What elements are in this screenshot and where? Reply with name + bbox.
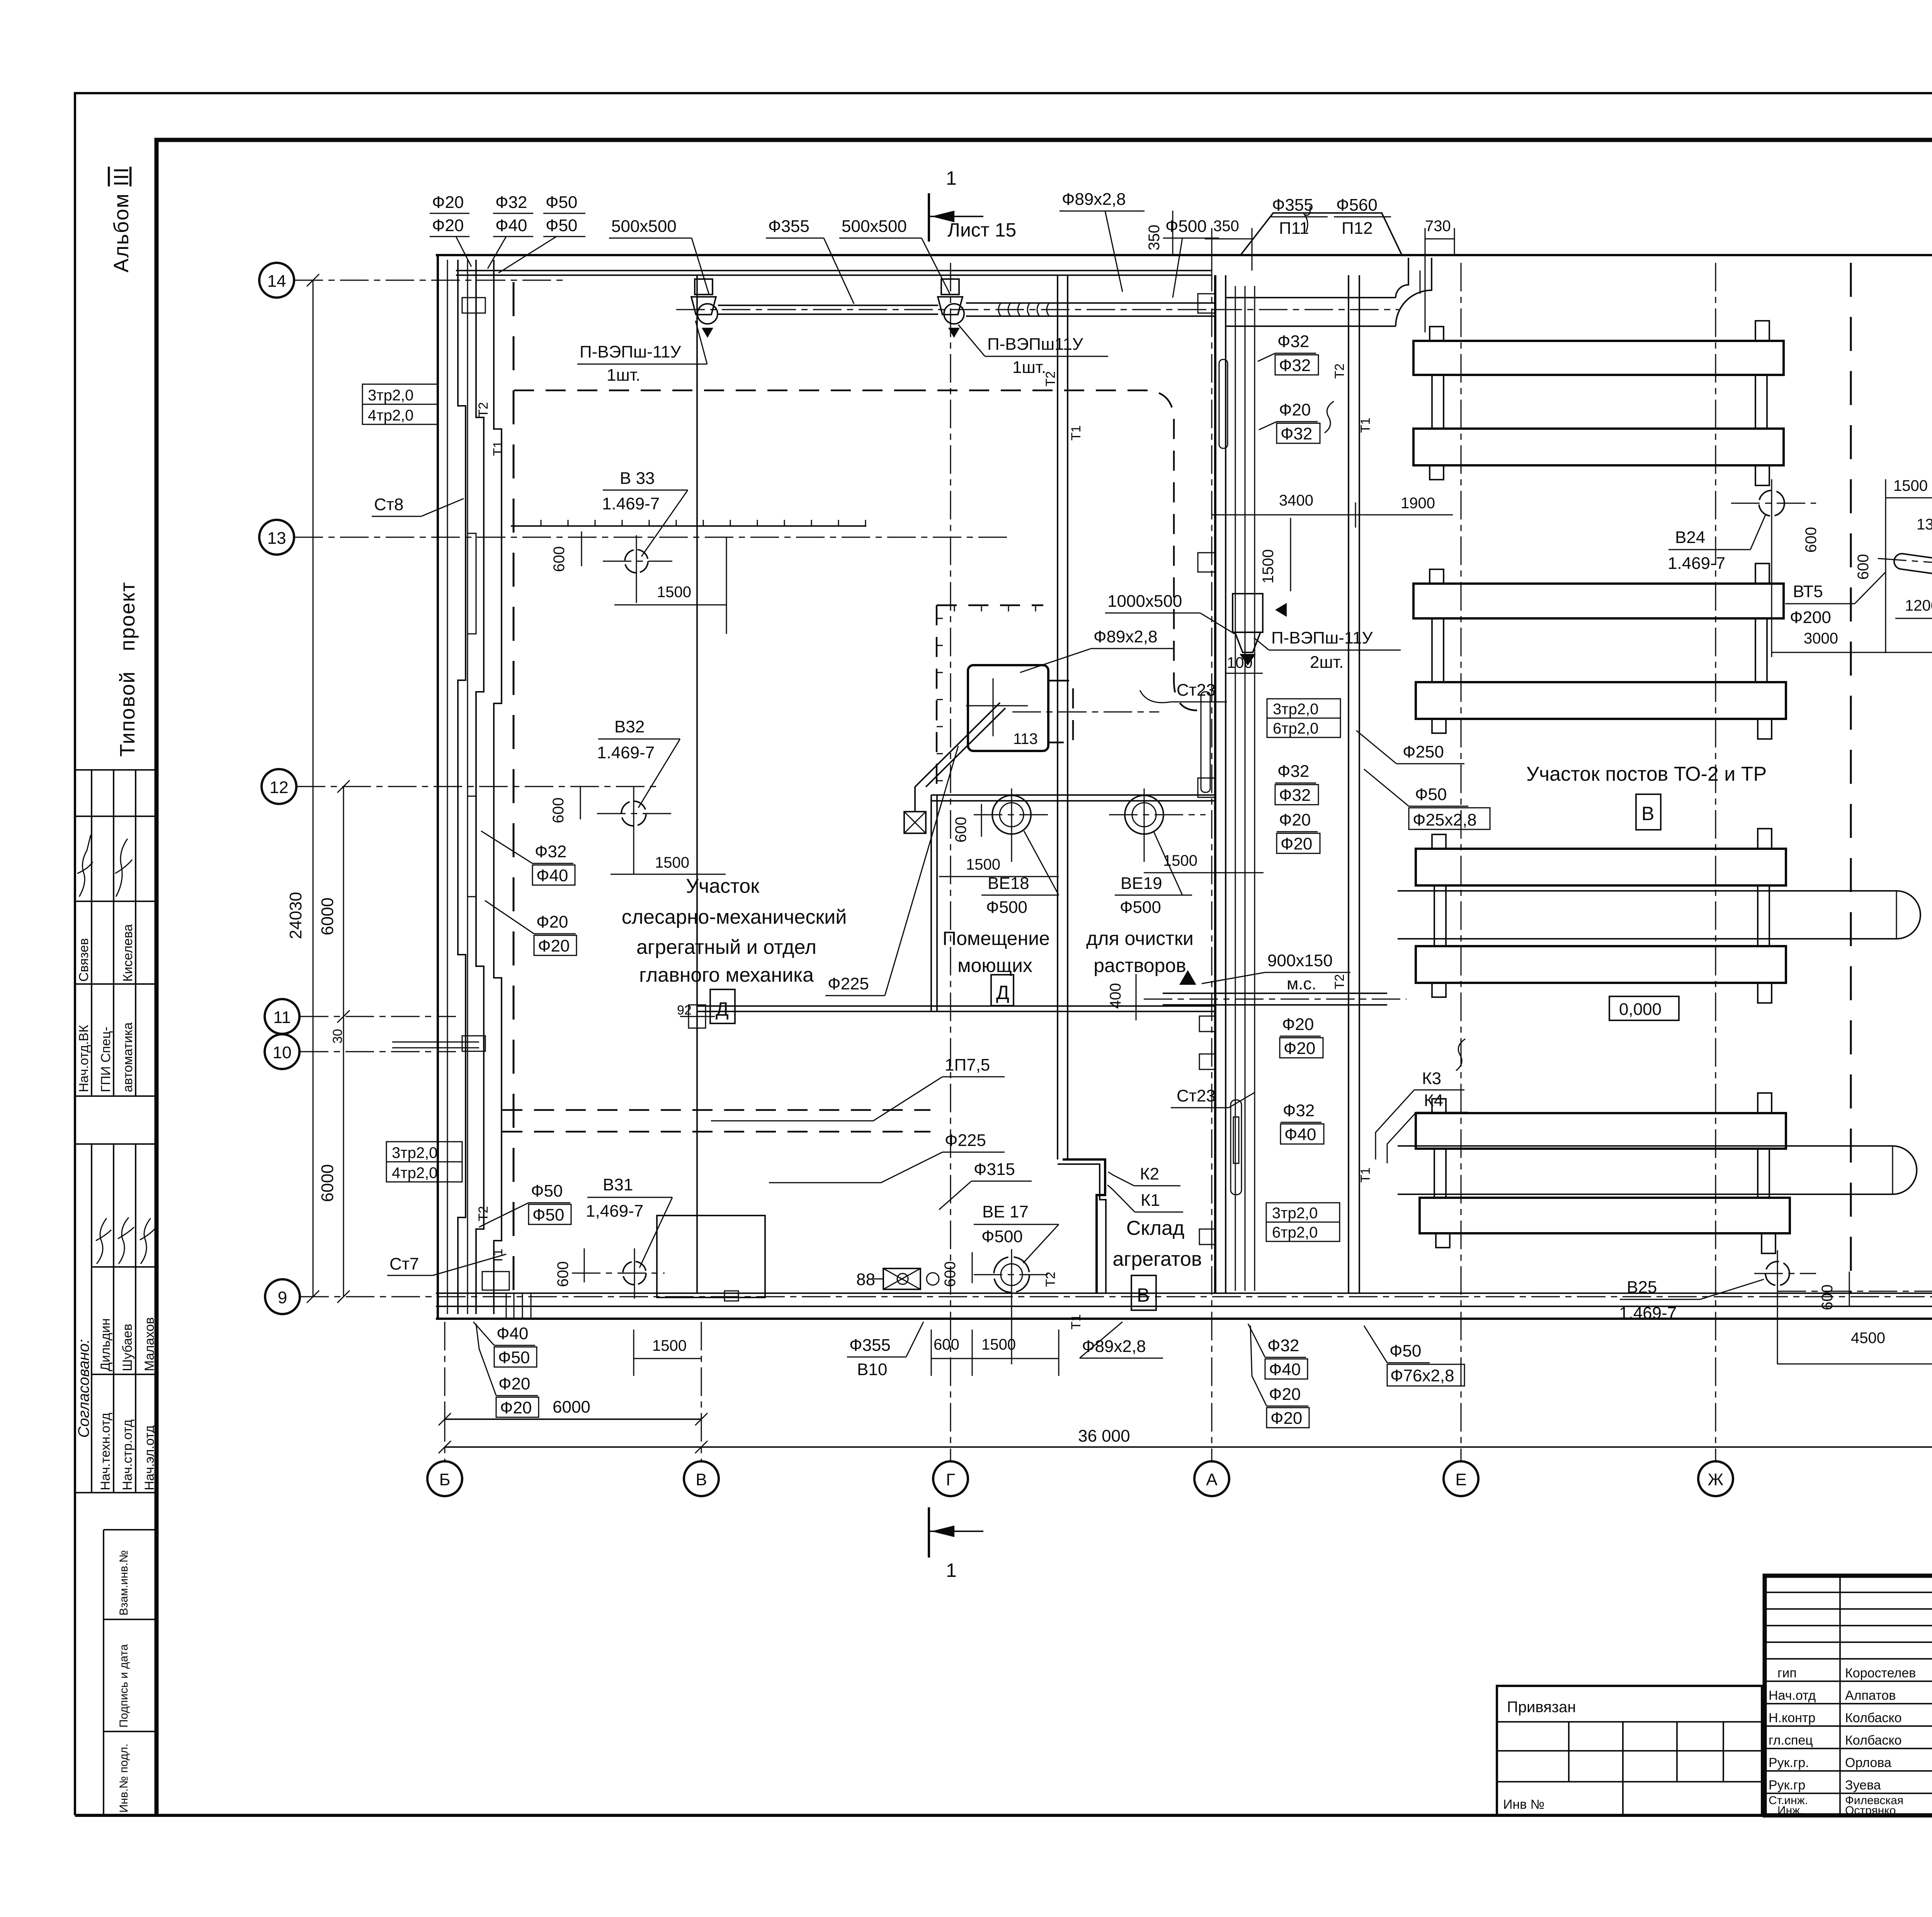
svg-text:ГПИ Спец-: ГПИ Спец-	[99, 1027, 113, 1092]
svg-text:1500: 1500	[981, 1336, 1016, 1353]
svg-text:Рук.гр.: Рук.гр.	[1769, 1755, 1809, 1770]
dash-dot line from 113 to St23	[1012, 712, 1159, 713]
svg-text:П-ВЭПш-11У: П-ВЭПш-11У	[1271, 628, 1373, 647]
svg-text:Лист 15: Лист 15	[947, 219, 1016, 241]
svg-text:Ф20: Ф20	[1279, 400, 1311, 419]
label F355	[766, 217, 854, 304]
svg-text:Нач.техн.отд: Нач.техн.отд	[98, 1413, 113, 1490]
bay bench group 1 upper bench	[1413, 321, 1784, 375]
dashed connector bracket at 113	[1049, 681, 1073, 742]
strainer with cross 88	[856, 1268, 939, 1289]
svg-text:Ф200: Ф200	[1790, 608, 1831, 627]
svg-text:Склад: Склад	[1126, 1217, 1185, 1239]
svg-text:Ф20: Ф20	[536, 913, 568, 931]
svg-text:3тр2,0: 3тр2,0	[1272, 1205, 1318, 1222]
bottom boxed F20 F20 right	[1250, 1326, 1309, 1428]
axis A circle	[1194, 1461, 1229, 1496]
svg-text:6000: 6000	[318, 1164, 337, 1202]
drain B32 label	[597, 717, 680, 808]
bay group 3 connectors	[1434, 885, 1769, 946]
fan unit 2 on duct	[938, 279, 964, 338]
riser capsule near axis A top	[1219, 359, 1228, 448]
svg-text:Ж: Ж	[1708, 1470, 1724, 1489]
T1 T2 riser tags left wall	[476, 402, 505, 1264]
svg-text:Участок: Участок	[686, 875, 759, 897]
bottom dim 600	[931, 1330, 972, 1376]
svg-text:10: 10	[273, 1043, 292, 1062]
dim 600 at B31	[554, 1248, 584, 1287]
svg-text:3тр2,0: 3тр2,0	[392, 1144, 437, 1161]
top pipe labels F32 F40	[488, 193, 533, 269]
svg-text:1500: 1500	[966, 856, 1000, 873]
dim 400 vertical	[1107, 974, 1136, 1020]
serrated fence around washing area	[937, 605, 1043, 792]
label 100	[1225, 654, 1263, 673]
svg-text:Ф500: Ф500	[1165, 217, 1207, 236]
room label dlya ochistki rastvorov	[1086, 928, 1194, 976]
svg-text:К4: К4	[1424, 1091, 1443, 1110]
axis 11 line	[300, 1016, 456, 1017]
svg-text:Колбаско: Колбаско	[1845, 1733, 1902, 1748]
svg-text:Нач.отд: Нач.отд	[1769, 1688, 1816, 1703]
svg-text:Ф50: Ф50	[532, 1205, 564, 1224]
svg-text:Связев: Связев	[77, 938, 91, 982]
boxed 3tr 4tr labels lower left	[386, 1142, 462, 1182]
bottom dim 1500 second	[972, 1330, 1059, 1376]
svg-text:П-ВЭПш11У: П-ВЭПш11У	[987, 335, 1083, 354]
washing room left wall	[931, 795, 937, 1011]
margin bottom boxes frame	[104, 1530, 156, 1815]
bay group 3 lower bench	[1416, 946, 1786, 1003]
axis E column line	[1461, 263, 1462, 1461]
svg-text:Т2: Т2	[476, 1206, 491, 1221]
axis 11 circle	[265, 999, 299, 1034]
svg-text:Нач.эл.отд: Нач.эл.отд	[142, 1425, 157, 1490]
room label sklad agregatov	[1112, 1217, 1202, 1270]
svg-text:Типовой проект: Типовой проект	[116, 581, 139, 757]
svg-text:Подпись и дата: Подпись и дата	[117, 1644, 130, 1728]
tap B24	[1731, 479, 1816, 657]
svg-text:Киселева: Киселева	[121, 924, 135, 982]
svg-text:Ф20: Ф20	[1279, 810, 1311, 829]
svg-text:Ст7: Ст7	[389, 1255, 419, 1273]
svg-text:Привязан: Привязан	[1507, 1699, 1576, 1716]
axis A column line	[1211, 263, 1213, 1461]
axis A interior wall bundle	[1198, 275, 1255, 1293]
dim 6000 bottom left	[439, 1398, 707, 1434]
dims around B24	[1803, 477, 1932, 653]
svg-text:для очистки: для очистки	[1086, 928, 1194, 949]
svg-text:6000: 6000	[318, 897, 337, 935]
svg-text:Т2: Т2	[1043, 1272, 1058, 1287]
bay group 1 connectors	[1432, 375, 1767, 429]
svg-text:м.с.: м.с.	[1287, 974, 1316, 993]
svg-text:13: 13	[267, 529, 286, 548]
svg-text:Ф50: Ф50	[531, 1182, 563, 1200]
signature rows texts	[1769, 1666, 1916, 1817]
svg-text:А: А	[1206, 1470, 1218, 1489]
svg-text:Ф20: Ф20	[1282, 1015, 1314, 1034]
axis G column line	[950, 263, 951, 1461]
svg-text:В24: В24	[1675, 528, 1705, 547]
boxed 3tr2.0 6tr2.0 lower	[1266, 1203, 1340, 1241]
svg-text:Ф560: Ф560	[1336, 196, 1378, 215]
room label pomeshchenie moyushchikh	[942, 928, 1050, 976]
VE18 label	[981, 831, 1059, 917]
boxed F20 F20 left wall	[485, 901, 577, 955]
svg-text:1500: 1500	[1893, 477, 1928, 494]
drain B31 label	[586, 1175, 672, 1268]
svg-text:Ф89х2,8: Ф89х2,8	[1062, 190, 1126, 209]
svg-text:Инв.№ подл.: Инв.№ подл.	[117, 1743, 130, 1813]
svg-text:1.469-7: 1.469-7	[602, 494, 660, 513]
axis 10 circle	[265, 1034, 299, 1069]
svg-text:1.469-7: 1.469-7	[1668, 554, 1725, 573]
label F315	[939, 1160, 1032, 1210]
axis B column line	[444, 1322, 446, 1461]
svg-text:Согласовано:: Согласовано:	[75, 1339, 92, 1438]
svg-text:Ф76х2,8: Ф76х2,8	[1390, 1366, 1454, 1385]
bay group 4 connectors	[1434, 1149, 1769, 1198]
svg-text:В: В	[1137, 1284, 1150, 1306]
svg-text:3400: 3400	[1279, 492, 1313, 509]
dim 600 at B33	[551, 531, 582, 572]
dim 350 horizontal	[1205, 218, 1252, 271]
svg-text:30: 30	[330, 1029, 345, 1044]
svg-text:Т1: Т1	[1069, 1314, 1083, 1330]
svg-text:Ф225: Ф225	[945, 1131, 986, 1150]
svg-text:агрегатов: агрегатов	[1112, 1248, 1202, 1270]
svg-text:В: В	[1641, 803, 1654, 824]
svg-text:Колбаско: Колбаско	[1845, 1711, 1902, 1725]
svg-text:Т1: Т1	[1358, 417, 1373, 433]
svg-text:К1: К1	[1141, 1191, 1160, 1210]
B25 label	[1619, 1278, 1764, 1323]
svg-text:В25: В25	[1627, 1278, 1657, 1297]
svg-text:600: 600	[1819, 1284, 1836, 1310]
roof shaft trapezoid P11 P12	[1240, 206, 1402, 256]
svg-text:Ф500: Ф500	[981, 1227, 1023, 1246]
svg-text:Ф20: Ф20	[500, 1398, 532, 1417]
vertical dim line 24030	[286, 274, 319, 1303]
bottom boxed F40 F50	[473, 1322, 537, 1367]
svg-text:6тр2,0: 6тр2,0	[1272, 1224, 1318, 1241]
dim 600 at B32	[550, 787, 580, 823]
svg-text:4тр2,0: 4тр2,0	[368, 407, 413, 424]
labels F20 F20 lower right column	[1280, 1015, 1323, 1058]
room tag D big room	[710, 989, 735, 1023]
svg-text:Т2: Т2	[1332, 974, 1347, 989]
svg-text:Б: Б	[439, 1470, 451, 1489]
bay bench group 3 upper bench	[1416, 829, 1786, 885]
axis 12 circle	[262, 769, 296, 804]
svg-text:Ф20: Ф20	[538, 936, 570, 955]
squiggle break near axis Zh top	[1325, 401, 1334, 433]
svg-text:Нач.стр.отд: Нач.стр.отд	[120, 1420, 135, 1490]
svg-text:Ф32: Ф32	[1279, 786, 1311, 805]
label 500x500 first	[609, 217, 709, 295]
svg-text:Ст8: Ст8	[374, 495, 403, 514]
axis E circle	[1444, 1461, 1478, 1496]
svg-text:Ф20: Ф20	[432, 193, 464, 212]
svg-text:132: 132	[1917, 516, 1932, 533]
svg-text:агрегатный и отдел: агрегатный и отдел	[636, 936, 816, 958]
svg-text:1шт.: 1шт.	[1012, 358, 1046, 377]
sklad agregatov stepped wall	[1063, 1159, 1105, 1293]
labels F20 F32 right column	[1259, 400, 1320, 443]
svg-text:1200: 1200	[1905, 597, 1932, 614]
svg-text:1500: 1500	[652, 1337, 687, 1354]
svg-text:Помещение: Помещение	[942, 928, 1050, 949]
svg-text:600: 600	[934, 1336, 959, 1353]
room label slesarno-mekhanichesky	[622, 875, 847, 986]
interior wall on axis V	[696, 275, 698, 1293]
svg-text:3000: 3000	[1804, 630, 1838, 647]
bottom dim 1500	[634, 1330, 701, 1376]
tap B25	[1754, 1250, 1932, 1364]
svg-text:600: 600	[1803, 527, 1820, 553]
svg-text:Ф500: Ф500	[1120, 898, 1161, 917]
duct drop 1000x500 with fan unit 3	[1233, 594, 1287, 666]
svg-text:1,469-7: 1,469-7	[586, 1202, 643, 1221]
axis Zh circle	[1698, 1461, 1733, 1496]
axis 9 circle	[265, 1279, 300, 1314]
svg-text:4тр2,0: 4тр2,0	[392, 1165, 437, 1182]
dim 1500 left	[939, 856, 1059, 877]
fan label 2sht	[1254, 628, 1401, 672]
section mark 1 bottom	[929, 1507, 983, 1581]
svg-text:1П7,5: 1П7,5	[945, 1056, 990, 1074]
svg-text:1шт.: 1шт.	[607, 366, 640, 385]
axis B circle	[427, 1461, 462, 1496]
svg-text:Е: Е	[1455, 1470, 1466, 1489]
svg-text:600: 600	[554, 1261, 571, 1287]
bay group 4 lower bench	[1420, 1198, 1790, 1253]
svg-text:600: 600	[942, 1261, 959, 1287]
margin table 1 frame	[75, 770, 156, 1096]
svg-text:Ф20: Ф20	[1270, 1409, 1302, 1428]
dim 600 at VE18	[952, 804, 981, 843]
bay group 2 lower bench	[1416, 682, 1786, 739]
VT5 label	[1785, 572, 1886, 627]
svg-text:500х500: 500х500	[842, 217, 907, 236]
label F225 lower	[769, 1131, 1005, 1183]
pipes crossing bottom wall at axis B	[506, 1293, 531, 1319]
svg-text:11: 11	[273, 1008, 291, 1027]
duct F500-F560 run to shaft	[1213, 258, 1432, 326]
svg-text:900х150: 900х150	[1267, 951, 1333, 970]
svg-text:Ф89х2,8: Ф89х2,8	[1082, 1337, 1146, 1356]
svg-text:Д: Д	[716, 998, 729, 1020]
label F560 P12	[1334, 196, 1391, 238]
svg-text:Ф40: Ф40	[1269, 1360, 1301, 1379]
room tag D washing	[991, 975, 1014, 1006]
K2 K1 labels	[1107, 1165, 1183, 1212]
svg-text:Ф500: Ф500	[986, 898, 1027, 917]
svg-text:Инж.: Инж.	[1777, 1804, 1803, 1817]
label 1000x500	[1105, 592, 1235, 634]
bay group 1 lower bench	[1413, 429, 1784, 485]
fan unit 1 on duct	[691, 279, 718, 338]
svg-text:В: В	[696, 1470, 707, 1489]
top exterior wall	[436, 255, 1932, 275]
riser capsule upper near axis A	[1201, 692, 1210, 792]
bottom boxed F20 F20	[476, 1324, 539, 1417]
svg-text:Ф20: Ф20	[1284, 1039, 1315, 1058]
svg-text:Ф32: Ф32	[1283, 1101, 1315, 1120]
svg-text:350: 350	[1146, 225, 1163, 250]
svg-text:Участок постов ТО-2 и ТР: Участок постов ТО-2 и ТР	[1526, 763, 1767, 785]
boxed F50 F50 left wall	[479, 1182, 571, 1227]
serrated partition at axis 13	[511, 520, 866, 526]
svg-text:В 33: В 33	[620, 469, 655, 488]
sklad agregatov stepped wall inner line	[1058, 1164, 1106, 1293]
svg-text:113: 113	[1013, 730, 1038, 747]
svg-text:ВЕ 17: ВЕ 17	[982, 1202, 1029, 1221]
svg-text:Ф20: Ф20	[1269, 1385, 1301, 1404]
axis 13 line	[294, 537, 1012, 538]
svg-text:9: 9	[278, 1288, 287, 1307]
svg-text:Ф40: Ф40	[1284, 1125, 1316, 1144]
svg-text:100: 100	[1227, 654, 1253, 671]
long dash zone line right of bays	[1850, 263, 1852, 1293]
squiggle break on axis E	[1456, 1039, 1465, 1071]
svg-text:Ф25х2,8: Ф25х2,8	[1413, 810, 1477, 829]
svg-text:600: 600	[952, 817, 969, 843]
svg-text:П-ВЭПш-11У: П-ВЭПш-11У	[580, 342, 682, 361]
svg-text:Г: Г	[946, 1470, 955, 1489]
svg-text:Ф32: Ф32	[535, 842, 566, 861]
svg-text:600: 600	[1855, 554, 1872, 580]
dim 1500 at B32	[611, 854, 726, 874]
svg-text:В10: В10	[857, 1360, 887, 1379]
svg-text:3тр2,0: 3тр2,0	[1273, 701, 1318, 718]
fan label P-VEPsh-11U 1sht second	[958, 325, 1108, 377]
svg-text:14: 14	[267, 272, 286, 291]
St23 riser capsule	[1231, 1100, 1242, 1195]
svg-text:автоматика: автоматика	[121, 1022, 135, 1092]
svg-text:1500: 1500	[1260, 549, 1277, 584]
St7 label	[387, 1254, 506, 1275]
svg-text:Т2: Т2	[1332, 363, 1347, 379]
label F355 P11	[1270, 196, 1328, 238]
zone tag V	[1636, 794, 1661, 830]
top pipe labels F50 F50	[498, 193, 585, 273]
VE19 label	[1115, 831, 1192, 917]
svg-text:2шт.: 2шт.	[1310, 653, 1344, 672]
svg-text:Взам.инв.№: Взам.инв.№	[117, 1550, 130, 1616]
drain B33 label	[602, 469, 688, 557]
washing equipment 113	[966, 665, 1048, 751]
labels F32 F40 lower right column	[1281, 1101, 1324, 1144]
svg-text:1.469-7: 1.469-7	[597, 743, 655, 762]
svg-text:К2: К2	[1140, 1165, 1159, 1183]
bay group 2 connectors	[1432, 618, 1767, 682]
svg-text:400: 400	[1107, 983, 1124, 1009]
boxed F32 F40 left wall	[481, 831, 575, 885]
pit 1 long walls with round end	[1398, 891, 1920, 939]
section mark 1 list 15 top	[929, 167, 1016, 242]
margin table 1 signature scribbles	[77, 835, 93, 897]
svg-text:Шубаев: Шубаев	[120, 1324, 135, 1371]
svg-text:главного механика: главного механика	[639, 964, 814, 986]
svg-text:Ф20: Ф20	[498, 1374, 530, 1393]
St8 label	[372, 495, 464, 516]
dim 3400	[1212, 492, 1355, 528]
svg-text:В32: В32	[614, 717, 645, 736]
dim 600 at VE17	[942, 1252, 972, 1287]
St23 label top	[1140, 681, 1227, 703]
svg-text:1: 1	[946, 167, 957, 189]
svg-text:24030: 24030	[286, 892, 305, 939]
svg-text:моющих: моющих	[957, 955, 1032, 976]
svg-text:Т1: Т1	[1069, 425, 1083, 441]
labels F32 F32 mid column	[1275, 762, 1318, 805]
labels F32 F32 right column	[1258, 332, 1318, 375]
axis 13 circle	[259, 520, 294, 555]
svg-text:Алпатов: Алпатов	[1845, 1688, 1896, 1703]
svg-text:Ф315: Ф315	[974, 1160, 1015, 1179]
svg-text:Ф355: Ф355	[849, 1336, 891, 1355]
dim 1500 right	[1144, 852, 1264, 873]
svg-text:1.469-7: 1.469-7	[1619, 1304, 1677, 1323]
svg-text:гл.спец: гл.спец	[1769, 1733, 1813, 1748]
privyazan inner lines	[1497, 1722, 1762, 1815]
svg-text:12: 12	[270, 778, 289, 797]
svg-text:Ф40: Ф40	[495, 216, 527, 235]
labels F20 F20 mid column	[1277, 810, 1320, 853]
svg-text:500х500: 500х500	[611, 217, 677, 236]
boxed 3tr2.0 6tr2.0 upper	[1267, 699, 1340, 737]
axis G circle	[933, 1461, 968, 1496]
svg-text:Коростелев: Коростелев	[1845, 1666, 1916, 1680]
svg-text:1500: 1500	[1163, 852, 1197, 869]
svg-text:1500: 1500	[657, 584, 691, 601]
VE17 label	[974, 1202, 1059, 1263]
dim 3000	[1772, 630, 1932, 652]
svg-text:Дильдин: Дильдин	[98, 1318, 113, 1371]
svg-text:Ф50: Ф50	[546, 216, 577, 235]
svg-text:600: 600	[550, 797, 567, 823]
svg-text:Ф225: Ф225	[828, 974, 869, 993]
hose reel near B24	[1878, 553, 1932, 575]
dim 4500	[1777, 1330, 1932, 1364]
vent unit VE17	[974, 1249, 1055, 1364]
dashed partition below axis 10	[502, 1110, 930, 1132]
svg-text:Т2: Т2	[476, 402, 491, 417]
svg-text:Т1: Т1	[1358, 1167, 1373, 1183]
vent duct 900x150 horizontal	[1144, 970, 1406, 1005]
left exterior wall riser bundle	[392, 255, 509, 1319]
svg-text:Ф32: Ф32	[1267, 1336, 1299, 1355]
diagonal pipe F225 to washer	[904, 703, 1005, 833]
svg-text:36 000: 36 000	[1078, 1427, 1130, 1445]
svg-text:Ф32: Ф32	[495, 193, 527, 212]
valve on axis V wall	[680, 1005, 715, 1028]
svg-text:1900: 1900	[1401, 495, 1435, 512]
svg-text:слесарно-механический: слесарно-механический	[622, 906, 847, 928]
bottom boxed F32 F40 right	[1248, 1324, 1308, 1379]
privyazan stamp block frame	[1497, 1686, 1762, 1815]
K3 K4 labels	[1376, 1069, 1468, 1163]
dim 36000 bottom	[439, 1427, 1932, 1453]
margin: soglasovano block frame	[75, 1144, 156, 1493]
svg-text:гип: гип	[1777, 1666, 1797, 1680]
bottom exterior wall	[436, 1293, 1932, 1319]
label 1P7.5	[711, 1056, 1005, 1121]
bottom label F50 F76x2.8	[1364, 1326, 1464, 1386]
interior dashed line along left wall	[513, 282, 515, 1291]
